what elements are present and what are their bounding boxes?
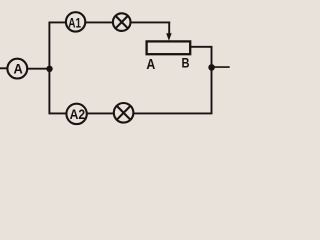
node: right junction dot <box>208 64 215 71</box>
node: left junction dot <box>46 66 52 72</box>
ammeter A (main) <box>7 59 27 79</box>
ammeter A1 <box>66 12 85 31</box>
svg-text:A: A <box>14 61 23 77</box>
wire: bottom rail <box>49 112 213 114</box>
wire: wiper arrow vertical drop <box>168 22 170 36</box>
wire: output stub from right junction <box>212 66 230 68</box>
wire: ammeter A to junction node <box>25 68 50 70</box>
wire: rheostat right terminal to right riser <box>191 46 213 48</box>
wire: right vertical riser <box>211 47 213 114</box>
svg-text:B: B <box>182 56 190 71</box>
svg-text:A2: A2 <box>70 107 86 122</box>
wire: top rail from corner to wiper turn <box>49 21 171 23</box>
wiper arrowhead <box>166 33 172 41</box>
lamp L2 (bottom branch) <box>114 103 134 123</box>
lamp L1 (top branch) <box>113 13 131 31</box>
svg-text:A1: A1 <box>68 15 81 30</box>
wire: left lead into ammeter A <box>0 67 9 69</box>
ammeter A2 <box>66 104 86 124</box>
svg-text:A: A <box>146 57 155 73</box>
wire: left vertical riser (junction to top and bottom rails) <box>48 22 50 113</box>
rheostat (slide resistor) body <box>147 41 191 54</box>
